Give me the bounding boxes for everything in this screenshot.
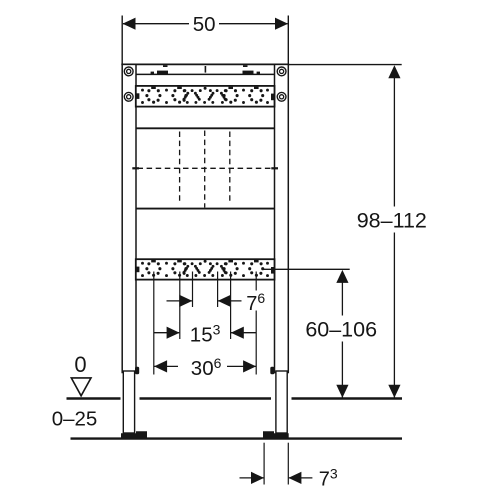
extension line hole F lower part [255, 311, 257, 375]
equipment zone box bottom [136, 208, 275, 210]
raw floor line [71, 437, 403, 439]
left leg collar [135, 367, 139, 374]
centre line end tick right [271, 167, 278, 169]
right leg collar [270, 367, 274, 374]
dimension 98-112 line lower [393, 233, 395, 399]
dimension 7.6 arrow right [218, 295, 231, 307]
dimension 98-112 arrow up [388, 65, 400, 78]
dimension 7.3 arrow right [288, 472, 301, 484]
svg-text:0–25: 0–25 [52, 408, 98, 431]
equipment zone box top [136, 127, 275, 129]
dimension 7.3 tail left [240, 477, 264, 479]
top crossbar bottom edge [136, 73, 275, 75]
dimension 7.3 arrow left [251, 472, 264, 484]
right leg lower tube [276, 371, 287, 433]
dashed horizontal centre line [138, 167, 274, 169]
svg-text:98–112: 98–112 [357, 208, 427, 232]
frame top nub right [243, 65, 248, 67]
dimension 30.6 arrow left [154, 360, 167, 372]
extension line hole E (15.3 right) [230, 272, 232, 340]
finished floor line segment middle [140, 397, 272, 399]
dimension 7.6 tail right [218, 300, 242, 302]
lower rail left notch [136, 267, 140, 273]
dimension 50 extension line left [121, 16, 123, 68]
datum triangle [71, 378, 91, 396]
dimension 30.6 line left segment [154, 365, 178, 367]
upper rail hole pattern [141, 87, 269, 104]
screw mid-right [277, 92, 286, 101]
dashed vertical line middle [204, 131, 206, 208]
leader line from lower rail [262, 268, 350, 270]
top crossbar center tick [204, 66, 206, 73]
dimension 15.3 arrow right [231, 327, 244, 339]
dimension 7.6 arrow left [179, 295, 192, 307]
crossbar clip small left [151, 72, 154, 74]
left leg lower tube [123, 371, 134, 433]
upper rail left notch [136, 93, 140, 99]
left foot plate [121, 431, 147, 437]
right leg upper profile [275, 64, 289, 372]
extension line hole F (30.6 right) [255, 272, 257, 291]
dimension 7.3 extension line left [263, 443, 265, 485]
dimension 98-112 arrow down [388, 385, 400, 398]
svg-text:0: 0 [74, 352, 86, 377]
dimension 7.3 tail right [289, 477, 313, 479]
lower rail right notch [271, 267, 275, 274]
screw top-right [277, 67, 286, 76]
right foot plate [263, 431, 289, 437]
svg-text:60–106: 60–106 [305, 318, 377, 342]
dimension 98-112 line upper [393, 77, 395, 207]
finished floor line segment right [292, 397, 403, 399]
dimension 15.3 tail left [154, 332, 180, 334]
left leg upper profile [122, 64, 136, 372]
dimension 50 line right segment [219, 23, 288, 25]
lower rail hole pattern [141, 260, 269, 277]
crossbar clip big left [157, 71, 168, 74]
upper mounting rail [136, 86, 275, 107]
dimension 15.3 tail right [231, 332, 256, 334]
dimension 30.6 arrow right [243, 360, 256, 372]
dimension 7.6 tail left [167, 300, 193, 302]
crossbar clip big right [243, 71, 254, 74]
dashed vertical line right [229, 132, 231, 205]
dimension 50 arrow right [275, 18, 288, 30]
extension line hole D (7.6 right) [217, 272, 219, 308]
dimension 50 line left segment [123, 23, 189, 25]
centre line end tick left [132, 167, 139, 169]
frame top nub left [163, 65, 168, 67]
dimension 50 extension line right [287, 16, 289, 68]
crossbar clip small right [257, 72, 260, 74]
dimension 60-106 arrow down [336, 385, 348, 398]
screw mid-left [124, 92, 133, 101]
extension line hole C (7.6 left) [192, 272, 194, 308]
dashed vertical line left [179, 132, 181, 205]
finished floor line segment left [67, 397, 121, 399]
extension line hole A (30.6 left) [153, 272, 155, 375]
dimension 15.3 arrow left [167, 327, 180, 339]
dimension 50 arrow left [123, 18, 136, 30]
dimension 30.6 line right segment [227, 365, 256, 367]
lower mounting rail [136, 259, 275, 279]
upper rail right notch [271, 94, 275, 101]
dimension 60-106 line lower [341, 342, 343, 399]
dimension 60-106 arrow up [336, 270, 348, 283]
screw top-left [124, 67, 133, 76]
dimension 7.3 extension line right [287, 443, 289, 485]
top extension line for 98-112 [289, 64, 402, 66]
dimension 60-106 line upper [341, 282, 343, 316]
extension line hole B (15.3 left) [179, 272, 181, 340]
svg-text:50: 50 [193, 13, 216, 36]
frame top rail [121, 63, 289, 65]
